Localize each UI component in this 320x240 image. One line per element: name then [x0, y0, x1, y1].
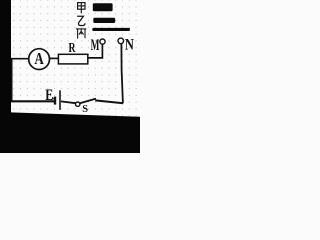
svg-text:R: R: [69, 41, 77, 56]
label yi (Chinese char): [77, 16, 85, 25]
svg-text:A: A: [34, 49, 44, 68]
wire: left to ammeter: [10, 58, 29, 60]
terminal M: [100, 39, 105, 44]
ammeter A1: [29, 49, 50, 70]
label bing (Chinese char): [76, 29, 86, 39]
wire: resistor to M stub: [88, 44, 103, 58]
paper background: [0, 0, 140, 153]
battery E short plate: [54, 97, 56, 105]
specimen bar yi (medium): [93, 18, 115, 23]
svg-text:S: S: [82, 103, 88, 115]
bottom black band: [0, 112, 140, 153]
wire: ammeter to resistor: [50, 57, 59, 59]
wire: bottom left horizontal: [11, 100, 54, 102]
svg-text:M: M: [91, 37, 100, 54]
wire: bottom right to switch: [95, 100, 123, 103]
terminal N: [118, 38, 124, 44]
small comma mark after E: [52, 98, 54, 100]
specimen bar jia (thick): [93, 3, 113, 11]
switch S blade: [80, 99, 96, 104]
left black border column: [0, 0, 11, 114]
label jia (Chinese char): [78, 3, 85, 14]
specimen bar bing (thin): [92, 28, 130, 31]
wire: left vertical: [11, 59, 13, 102]
resistor R: [58, 54, 87, 64]
switch pivot circle: [76, 102, 80, 106]
battery E long plate: [59, 90, 61, 110]
wire: N down to bottom corner: [121, 44, 123, 103]
svg-text:N: N: [125, 36, 134, 53]
wire: battery to switch: [61, 101, 76, 103]
